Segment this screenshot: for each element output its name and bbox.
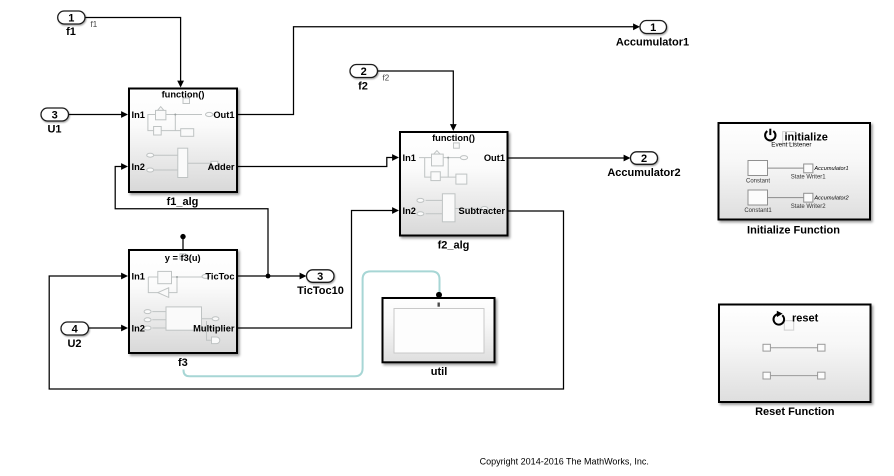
wire f1 to f1_alg trigger — [85, 18, 184, 88]
subsystem Reset Function — [719, 305, 871, 419]
svg-text:f2: f2 — [383, 74, 390, 83]
svg-text:State Writer1: State Writer1 — [791, 175, 827, 181]
svg-text:f2: f2 — [358, 81, 368, 93]
svg-text:Initialize Function: Initialize Function — [747, 225, 840, 237]
svg-text:function(): function() — [432, 133, 475, 143]
svg-text:In1: In1 — [132, 110, 145, 120]
svg-text:Event Listener: Event Listener — [771, 141, 811, 148]
svg-text:Accumulator2: Accumulator2 — [607, 167, 680, 179]
svg-text:Copyright 2014-2016 The MathWo: Copyright 2014-2016 The MathWorks, Inc. — [480, 457, 649, 467]
svg-text:f1: f1 — [66, 26, 76, 38]
svg-text:f3: f3 — [178, 357, 188, 369]
svg-text:Out1: Out1 — [484, 153, 505, 163]
svg-text:Multiplier: Multiplier — [193, 323, 235, 333]
svg-text:In2: In2 — [403, 206, 416, 216]
svg-text:U2: U2 — [67, 338, 81, 350]
subsystem f1_alg — [129, 89, 237, 209]
wire f1_alg Adder to f2_alg In1 — [238, 154, 399, 166]
inport U1 — [41, 108, 69, 136]
wire constant to state writer1 — [768, 167, 804, 169]
svg-text:2: 2 — [641, 153, 647, 165]
svg-text:reset: reset — [792, 312, 819, 324]
svg-text:Accumulator1: Accumulator1 — [616, 36, 689, 48]
svg-text:Accumulator2: Accumulator2 — [813, 196, 849, 202]
wire TicToc junction to f1_alg In2 — [115, 163, 270, 278]
outport Accumulator2 — [607, 152, 680, 179]
f1_alg preview — [147, 107, 218, 178]
state writer2 — [804, 193, 813, 202]
function-call line f3 to util (cyan) — [184, 271, 440, 376]
svg-text:f1: f1 — [91, 20, 98, 29]
svg-text:3: 3 — [317, 271, 323, 283]
inport f2 — [350, 65, 378, 93]
reset row 2 — [763, 372, 770, 379]
svg-text:Subtracter: Subtracter — [459, 206, 506, 216]
svg-text:f1_alg: f1_alg — [167, 196, 199, 208]
inport f1 — [58, 11, 85, 38]
svg-text:1: 1 — [68, 13, 74, 25]
svg-text:Adder: Adder — [208, 162, 235, 172]
svg-text:In1: In1 — [132, 271, 145, 281]
svg-text:y = f3(u): y = f3(u) — [165, 253, 201, 263]
wire f3 TicToc to TicToc10 — [238, 273, 307, 280]
svg-text:U1: U1 — [47, 124, 61, 136]
wire f3 Multiplier to f2_alg In2 — [238, 207, 399, 328]
wire f2 to f2_alg trigger — [378, 71, 457, 131]
wire f1_alg Out1 to Accumulator1 — [238, 23, 640, 114]
reset row 1 — [763, 344, 770, 351]
wire f2_alg Subtracter loop to f3 In1 — [49, 211, 563, 389]
wire f2_alg Out1 to Accumulator2 — [509, 155, 631, 162]
wire U1 to f1_alg In1 — [69, 111, 129, 118]
initialize event icon — [765, 129, 828, 149]
f2_alg preview — [417, 151, 488, 222]
svg-text:In2: In2 — [132, 162, 145, 172]
f3 preview — [144, 271, 230, 343]
svg-text:4: 4 — [72, 324, 79, 336]
subsystem Initialize Function — [719, 123, 871, 237]
svg-text:Constant1: Constant1 — [744, 208, 772, 214]
svg-text:TicToc10: TicToc10 — [297, 285, 344, 297]
constant1 — [748, 190, 768, 205]
svg-text:Reset Function: Reset Function — [755, 406, 835, 418]
svg-text:Out1: Out1 — [213, 110, 234, 120]
svg-text:In2: In2 — [132, 323, 145, 333]
svg-text:f2_alg: f2_alg — [438, 240, 470, 252]
svg-text:3: 3 — [52, 110, 58, 122]
svg-text:1: 1 — [650, 22, 656, 34]
reset event icon — [774, 311, 819, 330]
wire U2 to f3 In2 — [89, 325, 129, 332]
wire constant1 to state writer2 — [768, 197, 804, 199]
node above f3 — [180, 234, 185, 249]
subsystem util — [383, 298, 495, 378]
svg-text:In1: In1 — [403, 153, 416, 163]
svg-text:Constant: Constant — [746, 179, 770, 185]
subsystem f3 — [129, 250, 237, 369]
svg-text:TicToc: TicToc — [205, 271, 234, 281]
node on util top — [436, 292, 442, 298]
state writer1 — [804, 164, 813, 173]
svg-text:State Writer2: State Writer2 — [791, 204, 827, 210]
outport TicToc10 — [297, 270, 344, 297]
svg-text:util: util — [431, 366, 448, 378]
outport Accumulator1 — [616, 21, 689, 49]
svg-text:Accumulator1: Accumulator1 — [813, 166, 848, 172]
svg-text:2: 2 — [361, 66, 367, 78]
constant 1 — [748, 161, 768, 176]
inport U2 — [61, 322, 89, 350]
subsystem f2_alg — [400, 132, 508, 252]
